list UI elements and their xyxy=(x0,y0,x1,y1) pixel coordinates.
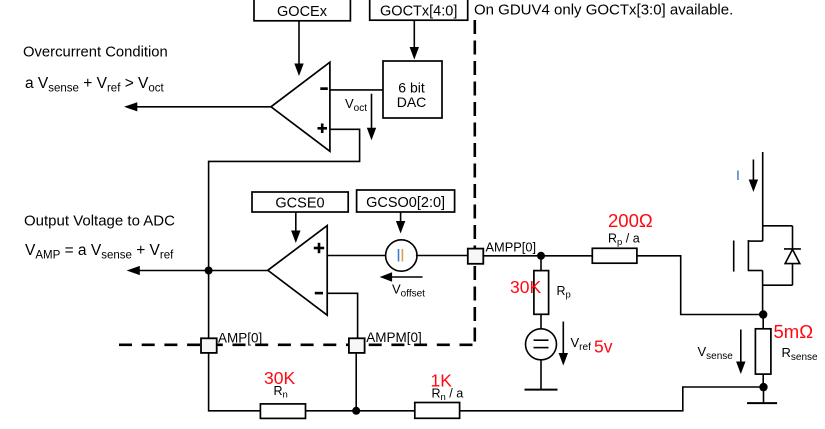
svg-text:5v: 5v xyxy=(594,337,613,357)
wire U1 plus input xyxy=(209,129,360,338)
offset source V1 xyxy=(386,240,417,271)
pad AMPP[0] xyxy=(468,240,536,264)
svg-text:GCSE0: GCSE0 xyxy=(275,196,324,212)
wire offset source to AMPP xyxy=(416,255,468,257)
wire U2 minus input to AMPM xyxy=(327,293,357,338)
svg-text:VAMP = a Vsense + Vref: VAMP = a Vsense + Vref xyxy=(25,242,174,262)
op-amp U2 xyxy=(268,226,327,316)
svg-text:Voct: Voct xyxy=(345,96,367,114)
wire U2 output arrow xyxy=(127,266,268,275)
note: Output Voltage to ADC xyxy=(24,213,175,230)
label Vsense arrow xyxy=(698,330,746,375)
svg-text:DAC: DAC xyxy=(397,94,427,110)
wire U2 plus input xyxy=(327,255,385,257)
pad AMPM[0] xyxy=(349,330,422,353)
junction Rsense bottom xyxy=(759,383,767,391)
note: Overcurrent Condition xyxy=(23,45,168,61)
wire AMPM down xyxy=(355,353,357,411)
svg-text:Overcurrent Condition: Overcurrent Condition xyxy=(23,45,168,61)
register box GCSO0[2:0] xyxy=(357,190,455,212)
transistor Q1 xyxy=(734,240,763,315)
wire arrow GOCEx to comparator U1 xyxy=(294,21,303,76)
svg-text:AMP[0]: AMP[0] xyxy=(218,331,262,346)
ground below Rsense xyxy=(747,387,777,403)
wire Rp/a to sense node xyxy=(637,256,763,315)
wire AMP to bottom rail xyxy=(209,353,261,411)
wire arrow GOCTx to DAC xyxy=(410,20,419,59)
formula: VAMP = a Vsense + Vref xyxy=(25,242,174,262)
wire arrow GCSO0 to offset source xyxy=(396,212,405,234)
svg-text:30K: 30K xyxy=(510,277,541,297)
resistor Rsense 5mohm xyxy=(755,321,818,387)
svg-text:AMPM[0]: AMPM[0] xyxy=(366,330,422,345)
wire sense node from Rp/a xyxy=(762,315,764,329)
svg-text:GOCEx: GOCEx xyxy=(277,4,328,20)
pad AMP[0] xyxy=(201,331,262,353)
resistor Rp 30K xyxy=(510,256,571,329)
register box GOCTx[4:0] xyxy=(370,0,468,20)
label Voffset arrow xyxy=(380,272,426,299)
junction bottom rail AMPM xyxy=(352,407,360,415)
svg-text:200Ω: 200Ω xyxy=(608,210,653,231)
svg-text:GCSO0[2:0]: GCSO0[2:0] xyxy=(366,195,445,211)
svg-text:Rn / a: Rn / a xyxy=(432,387,464,404)
resistor Rn/a 1K xyxy=(415,371,463,419)
svg-text:Rp: Rp xyxy=(557,284,571,301)
boundary dashed line vertical xyxy=(473,20,476,348)
svg-text:Output Voltage to ADC: Output Voltage to ADC xyxy=(24,213,175,230)
note: On GDUV4 only GOCTx[3:0] available. xyxy=(474,2,733,19)
junction AMPP branch xyxy=(537,252,545,260)
comparator U1 xyxy=(271,62,330,151)
junction source sense node xyxy=(759,310,767,318)
wire arrow GCSE0 to op-amp U2 xyxy=(291,212,300,243)
svg-text:On GDUV4 only GOCTx[3:0] avail: On GDUV4 only GOCTx[3:0] available. xyxy=(474,2,733,19)
source Vref xyxy=(526,329,557,360)
svg-text:GOCTx[4:0]: GOCTx[4:0] xyxy=(380,4,457,20)
register box GCSE0 xyxy=(252,192,348,212)
svg-text:Rsense: Rsense xyxy=(782,345,819,363)
wire AMPP to Rp/a xyxy=(483,255,592,257)
wire drain with current I arrow xyxy=(736,152,763,241)
svg-text:Rp / a: Rp / a xyxy=(608,232,640,249)
resistor Rn 30K xyxy=(260,368,414,418)
junction U2 output xyxy=(205,267,213,275)
block U3 6 bit DAC xyxy=(383,61,442,118)
register box GOCEx xyxy=(254,0,350,21)
label Vref arrow and 5v xyxy=(559,322,613,366)
formula: a Vsense + Vref > Voct xyxy=(25,75,165,95)
wire U1 minus input to DAC xyxy=(330,89,383,91)
svg-text:a Vsense + Vref > Voct: a Vsense + Vref > Voct xyxy=(25,75,165,95)
ground below Vref xyxy=(525,360,558,390)
svg-text:Vref: Vref xyxy=(571,335,592,353)
boundary dashed line horizontal xyxy=(119,343,479,346)
resistor Rp/a 200ohm xyxy=(592,210,653,263)
node Voct label arrow xyxy=(345,94,376,141)
svg-text:Vsense: Vsense xyxy=(698,344,734,362)
wire bottom rail to sense ground node xyxy=(460,387,764,411)
diode D1 body xyxy=(763,226,801,285)
svg-text:5mΩ: 5mΩ xyxy=(774,321,814,342)
svg-text:I: I xyxy=(736,167,740,183)
svg-text:AMPP[0]: AMPP[0] xyxy=(486,240,537,255)
svg-text:Voffset: Voffset xyxy=(392,282,425,300)
wire U1 output arrow xyxy=(124,102,271,111)
